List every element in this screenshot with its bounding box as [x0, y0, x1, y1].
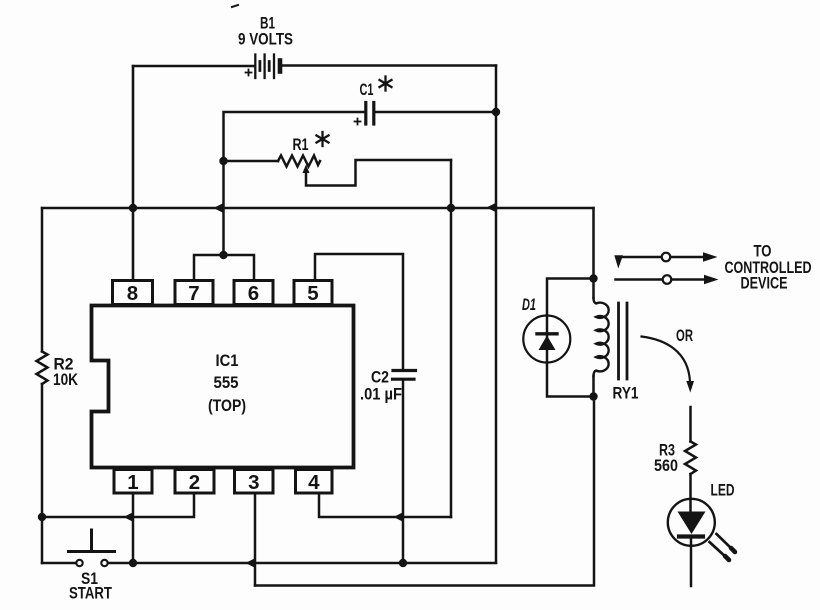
pin 2 box [175, 470, 214, 494]
S1 left terminal [76, 560, 82, 566]
zigzag R1 [278, 156, 320, 167]
svg-text:8: 8 [127, 282, 138, 305]
wire battery-right vertical (ground side) [495, 66, 498, 563]
capacitor C2 [393, 371, 416, 564]
D1 circle [523, 316, 570, 363]
diode D1 [523, 279, 593, 397]
pin 5 box [294, 281, 332, 305]
junction dot V+ rail / pin8 [129, 204, 137, 212]
light ray 1 [717, 534, 735, 552]
wire through circle [546, 316, 549, 363]
wire pin 3 output down [254, 493, 257, 586]
svg-text:4: 4 [308, 471, 320, 494]
svg-text:10K: 10K [53, 370, 79, 389]
V+ feed corner to relay [592, 208, 595, 279]
crossing hop ground over rail [487, 202, 498, 212]
contact row 2 wire [616, 278, 663, 281]
wire pin 5 to C2 [315, 254, 403, 369]
svg-text:7: 7 [188, 282, 199, 305]
pin 6 box [234, 281, 273, 305]
svg-text:5: 5 [307, 282, 318, 305]
contact row 1 wire [620, 256, 662, 259]
contact row 2 arrow [672, 278, 706, 281]
junction dot R1 left node [219, 157, 227, 165]
plate right [372, 103, 375, 125]
long plate 2 [263, 55, 265, 79]
relay core bar 2 [626, 303, 629, 379]
wire left vertical top [41, 208, 44, 352]
junction dot C2/ground [399, 559, 407, 567]
wire R1 left [224, 160, 279, 163]
wire R1 right vertical down to pin4 row [450, 160, 453, 517]
svg-text:555: 555 [214, 373, 239, 392]
svg-text:OR: OR [676, 326, 693, 345]
plate top [393, 369, 416, 372]
zigzag R3 [685, 442, 696, 475]
capacitor C1 [224, 103, 497, 256]
junction dot relay bottom / D1 [589, 392, 597, 400]
LED cathode bar [679, 534, 703, 538]
junction dot pin1/ground [129, 559, 137, 567]
plate left [364, 103, 367, 125]
wire into LED [689, 499, 692, 512]
wire C2 bottom [402, 379, 405, 563]
wire pin 1 down [132, 493, 135, 563]
svg-text:1: 1 [127, 471, 138, 494]
svg-text:DEVICE: DEVICE [741, 274, 788, 293]
junction dot pins 6-7 node [219, 251, 227, 259]
wiper stem and wire [306, 160, 451, 186]
wire battery right to corner [283, 64, 497, 67]
wire out of LED [690, 539, 693, 587]
svg-text:9 VOLTS: 9 VOLTS [238, 30, 293, 49]
S1 actuator stem [90, 530, 93, 552]
asterisk for R1 [317, 132, 329, 146]
long plate 1 [254, 55, 256, 79]
wire pin 2 to trigger node [42, 493, 194, 517]
resistor R3 [685, 407, 696, 499]
svg-text:IC1: IC1 [216, 351, 239, 370]
relay contact arm arrow [614, 255, 623, 268]
OR curved arrow [642, 337, 691, 383]
wire bottom [689, 474, 692, 499]
wire top [689, 407, 692, 442]
wire battery left to corner [133, 65, 254, 68]
svg-text:3: 3 [248, 471, 259, 494]
crossing hop pin3 over ground wire [246, 558, 257, 568]
plate bottom [393, 378, 415, 381]
battery B1 [133, 55, 496, 79]
asterisk for C1 [380, 77, 392, 91]
short plate 1 [258, 62, 261, 71]
LED [668, 499, 735, 586]
resistor R2 [37, 208, 48, 563]
svg-text:.01 µF: .01 µF [360, 385, 402, 404]
S1 actuator bar [69, 550, 115, 553]
speck [232, 5, 238, 7]
svg-text:2: 2 [189, 471, 200, 494]
relay RY1 coil [594, 279, 609, 397]
LED circle [668, 499, 715, 546]
wire D1 top [547, 279, 594, 316]
ground wire S1 to battery minus [108, 562, 496, 565]
wire D1 bottom [547, 363, 594, 397]
cathode bar [537, 332, 557, 335]
svg-text:560: 560 [654, 456, 678, 475]
svg-text:LED: LED [711, 481, 735, 500]
wire S1 left [42, 562, 76, 565]
crossing hop C1-node over rail [214, 203, 225, 213]
LED triangle [678, 512, 706, 535]
svg-text:6: 6 [248, 282, 259, 305]
junction dot trigger/R2 [38, 513, 46, 521]
crossing hop C2 over pin4 wire [394, 512, 405, 522]
svg-text:START: START [69, 584, 112, 603]
long plate 3 [273, 55, 275, 79]
wire pin 3 output to relay [255, 397, 594, 586]
plus sign [355, 121, 361, 123]
svg-text:(TOP): (TOP) [208, 396, 246, 415]
IC1 555 body [92, 306, 354, 468]
crossing hop pin1 over pin2 wire [124, 512, 135, 522]
zigzag R2 [37, 352, 48, 385]
short thick plate [278, 61, 283, 72]
pin 8 box [113, 281, 153, 305]
wire C1 right [376, 111, 497, 114]
wire C1 left [224, 112, 365, 255]
anode triangle [539, 336, 556, 351]
junction dot relay top / D1 [589, 274, 597, 282]
relay core bar 1 [617, 303, 620, 379]
contact row 1 terminal [662, 253, 671, 262]
svg-text:R1: R1 [293, 135, 309, 154]
wire pins 6-7 tie [194, 255, 254, 281]
pin 3 box [235, 470, 274, 494]
wire left vertical bottom [41, 384, 44, 563]
wiper arrow [303, 165, 310, 174]
wire pin 4 to V+ via R1 vertical [319, 493, 451, 517]
V+ rail [42, 207, 594, 210]
wire battery-left vertical to pin 8 [132, 66, 135, 281]
svg-text:C1: C1 [360, 80, 374, 99]
pin 1 box [114, 470, 152, 494]
light ray 2 [710, 542, 729, 560]
pin 7 box [175, 281, 213, 305]
contact row 1 arrow [671, 256, 705, 259]
S1 right terminal [101, 560, 107, 566]
short plate 2 [268, 62, 271, 71]
plus sign [246, 72, 252, 74]
junction dot C1 right [492, 108, 500, 116]
pin 4 box [296, 470, 333, 494]
svg-text:D1: D1 [522, 295, 536, 314]
svg-text:RY1: RY1 [613, 384, 639, 403]
pushbutton S1 [42, 530, 115, 566]
junction dot R1/V+ rail [447, 204, 455, 212]
contact row 2 terminal [663, 275, 672, 284]
potentiometer R1 [224, 156, 452, 186]
